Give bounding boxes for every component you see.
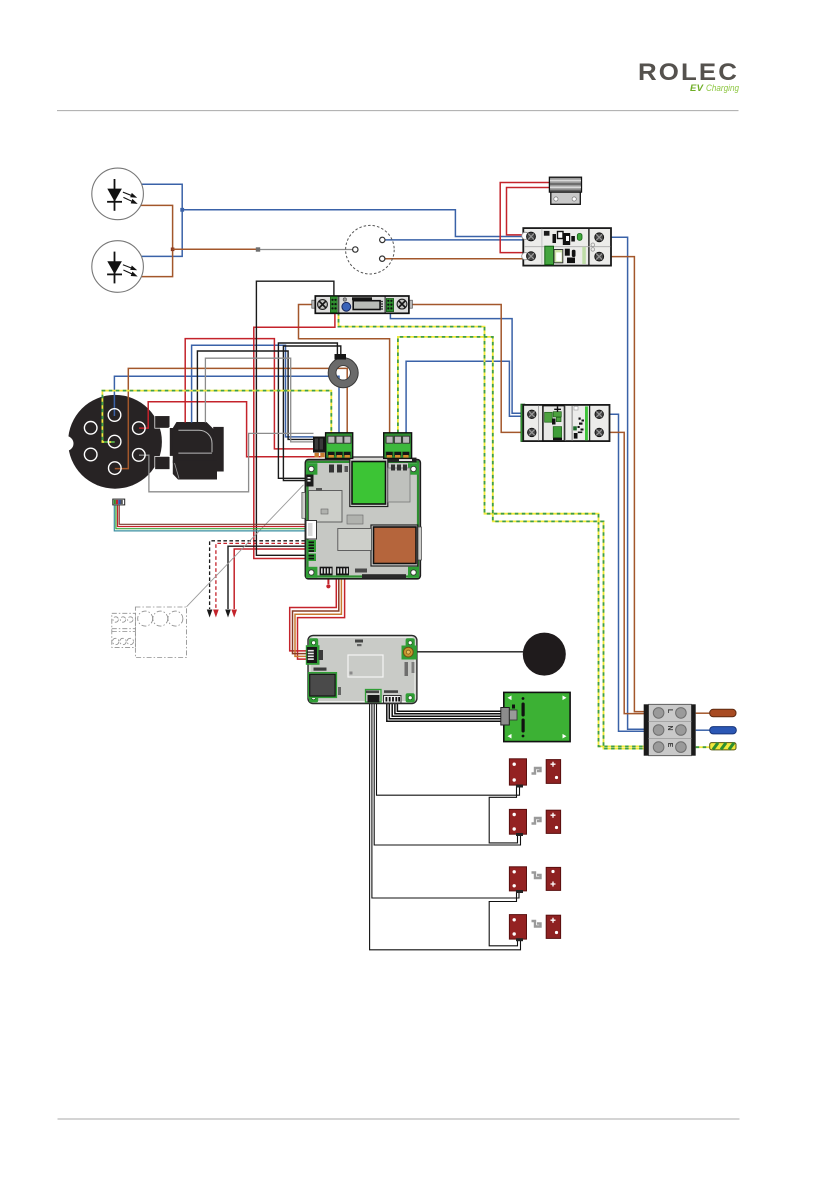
wire black latch to PCB connector: [197, 351, 313, 439]
wire black RFID cable 5: [397, 703, 501, 712]
earth wire terminal E stub: [696, 746, 710, 748]
meter screw left: [318, 300, 328, 310]
wire brown MCB2 out to terminal L: [599, 432, 645, 713]
wire black RFID cable 1: [387, 703, 501, 722]
arrow terminator black dashed: [207, 610, 213, 618]
svg-text:L: L: [666, 709, 673, 714]
heatsink resistor: [549, 177, 581, 204]
PCB connector ribbon (white): [306, 521, 317, 540]
wire blue MCB2 out to terminal N: [599, 414, 645, 731]
earth wire PCB terminal2 to main terminal E: [398, 337, 645, 749]
LED indicator 1: [92, 168, 144, 220]
wire brown meter right to MCB2: [402, 305, 525, 433]
wire brown meter left to PCB terminal2: [299, 305, 390, 435]
wire red PCB stub: [327, 579, 329, 584]
wire red dashed PCB to arrow: [216, 543, 305, 609]
MCB breaker 2: [521, 404, 610, 441]
PCB corner pads: [306, 463, 419, 578]
door switch pair 4: [509, 915, 560, 942]
pigtail earth E: [710, 743, 736, 750]
wire brown LED junction to gray link: [173, 248, 257, 250]
energy meter: [312, 296, 413, 313]
wire brown socket pin L through CT to PCB terminal1: [115, 368, 347, 468]
comms board labels: [314, 640, 415, 696]
wire gray LED feed to thermostat: [260, 249, 354, 251]
wire red socket CP pin to PCB: [139, 402, 322, 457]
comms controller board: [306, 635, 417, 703]
wire orange PCB to comms board: [295, 579, 341, 656]
wire blue RCD1 out to terminal N: [599, 237, 645, 729]
wire red heatsink resistor to RCD1 upper: [507, 188, 550, 235]
PCB connector A: [313, 437, 326, 458]
PCB top edge connector strip: [354, 458, 417, 463]
PCB small caps: [329, 465, 334, 473]
PCB lower-left pin headers: [307, 540, 316, 552]
pigtail brown L: [710, 709, 736, 717]
wire blue PCB terminal2 to MCB2: [406, 361, 525, 433]
arrow terminator red: [231, 610, 237, 618]
wire brown RCD1 out to terminal L: [599, 257, 645, 712]
wire black RFID cable 2: [389, 703, 501, 719]
wire black CT sense 1: [278, 343, 337, 478]
earth wire meter to main terminal E: [339, 305, 646, 746]
wire gray latch to PCB connector: [205, 358, 313, 442]
comms board corner pads: [309, 638, 415, 702]
node gray junction: [256, 247, 260, 251]
wire maroon PCB to comms board: [293, 579, 339, 654]
wire black antenna coax: [409, 651, 523, 653]
svg-text:N: N: [666, 725, 673, 730]
wire blue meter to MCB2: [390, 312, 525, 414]
wire red PCB to comms board bundle inner: [298, 579, 345, 659]
meter screw right: [397, 299, 407, 309]
RCD breaker 1: [522, 228, 611, 266]
PCB terminal block 2: [384, 433, 412, 459]
node brown junction: [171, 248, 175, 252]
RCD1 face graphics: [544, 231, 595, 265]
door switch pair 2: [509, 809, 560, 836]
relay K1 (green): [350, 457, 388, 507]
wire black CT sense 2: [283, 346, 340, 481]
wire black RFID cable 3: [392, 703, 501, 717]
leader line phantom contactor: [187, 485, 304, 607]
wire ribbon red: [118, 506, 308, 527]
RFID reader board: [501, 692, 570, 741]
antenna connector: [402, 646, 417, 660]
wire blue LED1-LED2 loop: [141, 184, 182, 256]
wire brown thermostat to RCD1: [383, 258, 524, 260]
pigtail blue N: [710, 727, 737, 734]
PCB bottom connectors: [320, 567, 333, 576]
phantom contactor (dash-dot outline): [112, 607, 187, 658]
svg-text:ROLEC: ROLEC: [638, 59, 739, 86]
wire blue thermostat to RCD1: [383, 239, 524, 241]
wire ribbon teal: [114, 506, 307, 531]
header rule: [57, 110, 739, 112]
svg-text:E: E: [666, 743, 673, 748]
wire red latch to PCB connector: [185, 339, 313, 449]
wire red meter to PCB left: [254, 312, 335, 559]
wire ribbon green: [116, 506, 307, 529]
RJ45 jack: [309, 673, 337, 698]
PCB connector B: [306, 475, 313, 487]
door switch pair 3: [509, 867, 560, 893]
LED indicator 2: [92, 241, 144, 293]
MCB2 screw terminals: [528, 410, 604, 437]
wire red solid PCB to arrow: [234, 549, 305, 609]
svg-text:EV: EV: [690, 83, 704, 94]
svg-text:Charging: Charging: [706, 83, 740, 94]
wire blue latch to PCB connector: [192, 345, 314, 437]
comms board power connector: [306, 645, 320, 665]
wire black touch bus 1 to door switch 1: [377, 702, 520, 795]
arrow terminator red dashed: [213, 610, 219, 618]
wire black solid PCB to arrow: [228, 546, 305, 609]
main PCB: [302, 457, 422, 579]
node blue junction: [180, 208, 184, 212]
CT toroid: [328, 354, 358, 388]
PCB module left: [309, 491, 342, 523]
wire red heatsink resistor to RCD1 lower: [500, 183, 550, 253]
earth wire socket PE to PCB terminal1: [102, 391, 331, 442]
ROLEC logo: [638, 59, 740, 94]
thermostat circle: [346, 225, 395, 274]
wire brown LED1-LED2 loop: [141, 205, 173, 276]
wire black touch bus 4 to door switch 4: [370, 702, 521, 950]
footer rule: [58, 1118, 740, 1120]
wire black link switch3 to switch4: [489, 891, 517, 946]
relay K2 (orange): [371, 525, 418, 566]
door switch pair 1: [509, 759, 560, 788]
ribbon connector (display cable): [113, 499, 125, 505]
wire black touch bus 3 to door switch 3: [372, 702, 519, 898]
PCB module center: [338, 529, 372, 551]
antenna puck: [523, 633, 566, 676]
socket body (charging socket, black): [59, 395, 162, 489]
RCD1 screw terminals: [527, 232, 604, 261]
wire ribbon maroon: [119, 506, 307, 525]
wire gray socket PP pin to PCB connector: [139, 433, 314, 491]
wire brown terminal L stub: [696, 712, 710, 714]
wire black RFID cable 4: [395, 703, 501, 714]
socket pin circles: [84, 409, 145, 475]
wire black touch bus 2 to door switch 2: [374, 702, 520, 845]
latch actuator body (black): [155, 416, 224, 480]
RFID connector: [384, 696, 402, 704]
comms board mid outline: [348, 655, 383, 677]
wire black dashed PCB to arrow: [210, 541, 305, 609]
main supply terminal block: [644, 704, 696, 755]
wire blue socket pin N through CT to PCB terminal1: [114, 376, 339, 434]
wire blue main run LEDs to RCD1: [182, 210, 524, 237]
wire red PCB to comms board bundle outer: [290, 579, 337, 651]
wire black meter to PCB left: [256, 281, 334, 555]
touch connector: [366, 690, 382, 703]
wire black link switch1 to switch2: [489, 786, 517, 843]
wire blue terminal N stub: [696, 729, 710, 731]
arrow terminator black: [225, 610, 231, 618]
PCB terminal block 1: [326, 433, 353, 459]
